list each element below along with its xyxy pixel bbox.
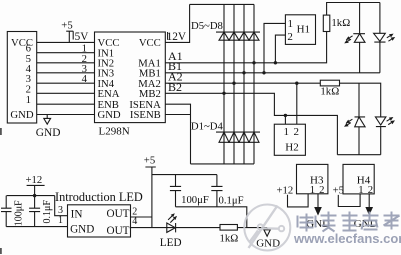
wire +5 to H4 pin1 bbox=[338, 194, 360, 207]
edge smudges bbox=[0, 128, 2, 254]
wire row5 3-IN4 bbox=[37, 82, 95, 84]
resistor R3 1k bottom bbox=[220, 225, 237, 231]
wire H2 pin1 up bbox=[284, 115, 286, 124]
wire row6 2-ENA bbox=[37, 92, 95, 94]
LED DS4 arrows bbox=[387, 119, 392, 124]
LED DS3 symbol bbox=[355, 117, 366, 127]
connector H4 box bbox=[343, 164, 374, 194]
diode array D1~D4 cathode bar bbox=[216, 131, 260, 133]
wire H3 pin2 down bbox=[317, 194, 319, 208]
LED D9 arrows bbox=[168, 216, 174, 223]
power +5 symbol top bbox=[66, 31, 73, 42]
diode D5 bbox=[219, 32, 229, 40]
wire diode column 2 bbox=[233, 4, 235, 164]
wire OUT pin2 bbox=[131, 216, 152, 218]
wire 12V row1 right bbox=[165, 4, 189, 42]
resistor R2 1k horizontal bbox=[320, 80, 339, 86]
wire ISENB row8 right bbox=[165, 114, 190, 116]
svg-text:www.elecfans.com: www.elecfans.com bbox=[293, 231, 401, 246]
L298N right pin labels bbox=[129, 37, 161, 121]
diode D8 bbox=[249, 32, 259, 40]
wire H4 pin2 down bbox=[368, 194, 370, 208]
capacitor C4 0.1uF leads bbox=[216, 175, 218, 207]
power +5 symbol bottom bbox=[145, 167, 155, 228]
wire diode column 1 bbox=[223, 4, 225, 164]
wire A2 row5 right bbox=[165, 83, 380, 117]
resistor R1 1k vertical bbox=[323, 15, 330, 31]
LED D9 symbol bbox=[167, 223, 176, 232]
wire OUT pin4 LED line bbox=[131, 227, 267, 229]
diode D7 bbox=[239, 32, 249, 40]
wire row8 GND-GND bbox=[37, 114, 95, 116]
wire R1 top lead and LED rail bbox=[327, 3, 380, 16]
capacitor C1 plates bbox=[1, 208, 12, 211]
connector H3 box bbox=[297, 164, 328, 193]
wire row4 4-IN3 bbox=[37, 72, 95, 74]
diode D4 bbox=[249, 132, 259, 142]
wire A1 row3 right bbox=[165, 32, 326, 63]
wire LED3/4 bottom rail bbox=[337, 154, 380, 156]
capacitor C4 plates bbox=[211, 186, 222, 190]
capacitor C2 0.1uF leads bbox=[34, 196, 36, 227]
wire H1 pin1 to B1 bbox=[264, 23, 285, 72]
capacitor C1 100uF leads bbox=[5, 196, 7, 227]
wire labels 1-4 bbox=[82, 43, 88, 85]
connector H2 box bbox=[274, 124, 305, 155]
LED DS1 leads bbox=[359, 3, 361, 73]
LED DS2 arrows bbox=[387, 36, 392, 41]
wire H1 pin2 to A1 bbox=[275, 35, 285, 63]
ground arrow below row8 bbox=[44, 115, 51, 125]
capacitor C3 plates bbox=[170, 186, 181, 190]
diode D1 bbox=[219, 132, 229, 142]
IC U2 Introduction LED box bbox=[68, 205, 131, 237]
diode D6 bbox=[229, 32, 239, 40]
wire cap bottom rail to LED line bbox=[176, 207, 247, 228]
LED DS2 leads bbox=[379, 3, 381, 73]
wire cap rail bottom middle bbox=[152, 174, 217, 176]
diode D2 bbox=[229, 132, 239, 142]
LED DS4 symbol bbox=[375, 117, 386, 127]
ground arrow H4 filled bbox=[366, 208, 372, 215]
diode D3 bbox=[239, 132, 249, 142]
diode array D5~D8 cathode bar bbox=[216, 31, 260, 33]
net label 12V tick bbox=[167, 32, 169, 40]
capacitor C2 plates bbox=[29, 208, 40, 211]
wire +12V top rail bbox=[190, 3, 254, 5]
wire B2 row6 right jog bbox=[165, 93, 337, 154]
capacitor C3 100uF leads bbox=[175, 175, 177, 207]
LED DS1 symbol bbox=[353, 34, 365, 43]
LED DS4 leads bbox=[380, 127, 382, 155]
wire diode column 3 bbox=[243, 4, 245, 164]
power +12 symbol bottom left bbox=[27, 185, 45, 195]
LED DS3 arrows bbox=[348, 119, 353, 124]
wire +12 rail bottom left bbox=[7, 195, 55, 197]
wire ISENA row7 right bbox=[165, 104, 190, 164]
wire H2 pin2 up to A2 bbox=[296, 83, 298, 124]
wire row3 5-IN2 bbox=[37, 62, 95, 64]
LED DS3 leads bbox=[358, 83, 360, 155]
IC U1 L298N box bbox=[95, 32, 166, 123]
wire B1 row4 right bbox=[165, 72, 380, 74]
net label 5V tick bbox=[72, 31, 74, 39]
wire row2 6-IN1 bbox=[37, 52, 95, 54]
wire ground rail under D1~D4 bbox=[191, 163, 255, 165]
pin numbers left box bbox=[26, 43, 32, 106]
wire VCC row1 between boxes bbox=[37, 41, 95, 43]
connector H1 box bbox=[285, 15, 315, 45]
watermark chinese chars bbox=[298, 212, 400, 232]
ground arrow bottom middle bbox=[264, 228, 270, 237]
wire pin3 jog to IN bbox=[55, 196, 68, 216]
ground arrow H3 filled bbox=[315, 208, 321, 215]
LED DS1 arrows bbox=[348, 36, 353, 41]
LED DS2 symbol bbox=[374, 33, 386, 42]
wire diode column 4 bbox=[253, 4, 255, 164]
wire +12 to H3 pin1 bbox=[288, 194, 309, 207]
connector J left box bbox=[7, 32, 36, 124]
wire row7 1-ENB bbox=[37, 103, 95, 105]
wire ground rail bottom left bbox=[6, 226, 67, 228]
